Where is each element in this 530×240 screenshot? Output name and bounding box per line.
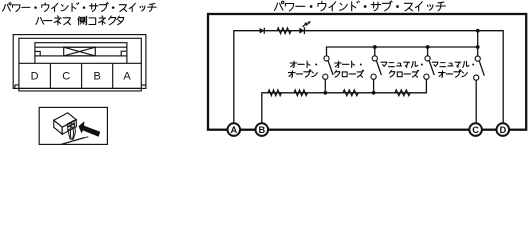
- svg-text:D: D: [31, 70, 39, 82]
- svg-text:D: D: [499, 125, 506, 135]
- svg-text:B: B: [94, 70, 101, 82]
- svg-text:A: A: [230, 125, 237, 135]
- svg-text:C: C: [472, 125, 479, 135]
- svg-text:A: A: [123, 70, 131, 82]
- svg-text:B: B: [258, 125, 265, 135]
- svg-text:C: C: [62, 70, 70, 82]
